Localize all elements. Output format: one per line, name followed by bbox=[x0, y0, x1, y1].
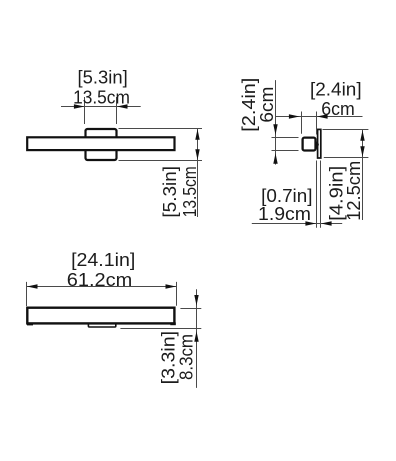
svg-text:1.9cm: 1.9cm bbox=[258, 204, 311, 224]
svg-text:8.3cm: 8.3cm bbox=[177, 334, 197, 380]
svg-text:[3.3in]: [3.3in] bbox=[159, 331, 179, 385]
svg-text:12.5cm: 12.5cm bbox=[344, 161, 364, 221]
svg-text:[5.3in]: [5.3in] bbox=[78, 68, 128, 88]
svg-text:[2.4in]: [2.4in] bbox=[310, 79, 362, 99]
svg-text:[2.4in]: [2.4in] bbox=[239, 78, 259, 132]
svg-text:[5.3in]: [5.3in] bbox=[160, 166, 180, 218]
svg-text:[0.7in]: [0.7in] bbox=[261, 186, 312, 206]
svg-text:13.5cm: 13.5cm bbox=[73, 87, 130, 107]
svg-text:61.2cm: 61.2cm bbox=[67, 270, 133, 290]
svg-text:13.5cm: 13.5cm bbox=[180, 166, 200, 217]
svg-text:6cm: 6cm bbox=[257, 87, 277, 123]
svg-text:[24.1in]: [24.1in] bbox=[71, 250, 135, 270]
svg-text:6cm: 6cm bbox=[321, 99, 355, 119]
